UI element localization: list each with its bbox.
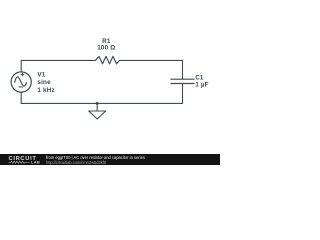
ground (89, 102, 106, 119)
svg-text:LAB: LAB (31, 161, 40, 165)
wire right vertical (bottom of C1) (182, 84, 184, 104)
caption line 2 (46, 160, 106, 165)
wire left vertical (bottom of V1) (20, 92, 22, 103)
wire right vertical (top of C1) (182, 60, 184, 78)
wire bottom horizontal (21, 102, 182, 104)
voltage source V1 (11, 72, 31, 92)
CircuitLab logo (0, 154, 44, 165)
labels (37, 38, 208, 94)
wire top-right horizontal (120, 59, 183, 61)
capacitor C1 (171, 79, 194, 83)
svg-text:1 kHz: 1 kHz (37, 87, 54, 94)
svg-text:100 Ω: 100 Ω (97, 45, 115, 52)
caption line 1 (46, 155, 145, 160)
svg-text:sine: sine (37, 79, 51, 86)
wire left vertical (top of V1) (20, 60, 22, 72)
footer bar (0, 154, 220, 165)
resistor R1 (96, 56, 120, 63)
svg-text:1 µF: 1 µF (195, 81, 209, 88)
wire top-left horizontal (21, 59, 95, 61)
svg-text:V1: V1 (37, 72, 45, 79)
schematic canvas (0, 0, 220, 165)
